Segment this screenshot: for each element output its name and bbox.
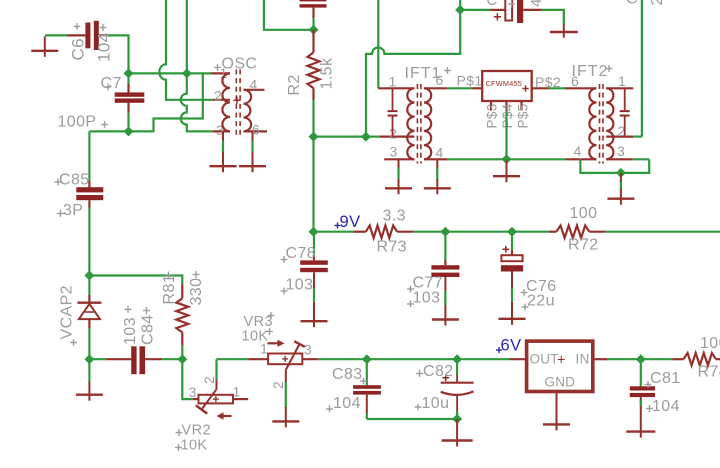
svg-text:R81: R81	[161, 274, 178, 305]
capacitor C82	[415, 359, 474, 419]
winding	[244, 90, 252, 132]
filter U1 box	[482, 71, 532, 101]
wire	[563, 24, 565, 32]
capacitor C71	[300, 0, 327, 30]
ground	[493, 175, 520, 177]
svg-text:6V: 6V	[501, 337, 522, 355]
node	[616, 168, 626, 178]
ground	[607, 197, 634, 199]
wire	[366, 136, 380, 138]
wire	[89, 276, 182, 285]
ground	[543, 423, 570, 425]
wire	[436, 159, 438, 188]
ground	[301, 320, 328, 322]
node	[182, 68, 192, 78]
wire	[460, 9, 490, 11]
capacitor internal	[620, 88, 630, 136]
svg-text:3: 3	[304, 342, 312, 358]
svg-text:6: 6	[436, 72, 444, 88]
capacitor internal	[388, 88, 398, 136]
filter U1 P$5	[516, 101, 531, 129]
filter U1 P$4	[500, 101, 515, 129]
pin 3	[384, 144, 414, 160]
wire	[314, 136, 366, 138]
svg-text:104: 104	[333, 395, 361, 412]
svg-text:IN: IN	[576, 352, 590, 367]
ground	[385, 187, 412, 189]
svg-text:3: 3	[189, 384, 197, 400]
node	[177, 354, 187, 364]
node	[309, 25, 319, 35]
ground	[76, 394, 103, 396]
node	[507, 227, 517, 237]
wire	[129, 72, 212, 74]
svg-text:100: 100	[700, 335, 720, 352]
svg-text:C78: C78	[286, 245, 317, 262]
svg-text:OUT: OUT	[530, 352, 559, 367]
transformer IFT1 label	[405, 65, 451, 82]
pin 2	[213, 88, 230, 104]
wire	[506, 159, 508, 176]
svg-text:R74: R74	[698, 364, 720, 381]
diode VCAP2	[59, 276, 102, 360]
node	[455, 5, 465, 15]
svg-text:2: 2	[270, 381, 286, 389]
pin 2	[606, 123, 633, 139]
node	[124, 126, 134, 136]
svg-text:1.5k: 1.5k	[319, 57, 336, 89]
origin cross	[233, 99, 240, 101]
svg-text:10K: 10K	[242, 329, 269, 345]
svg-text:2: 2	[649, 0, 666, 6]
svg-text:3P: 3P	[63, 202, 83, 219]
capacitor C83	[326, 359, 381, 419]
wire	[127, 113, 129, 132]
wire	[129, 73, 203, 131]
wire	[505, 111, 507, 160]
ground	[442, 439, 473, 441]
capacitor C81	[630, 359, 681, 431]
wire	[222, 131, 224, 166]
svg-text:4: 4	[574, 143, 582, 159]
pin 2	[380, 126, 415, 142]
core	[416, 84, 418, 164]
wire	[251, 131, 253, 166]
capacitor C85	[55, 172, 104, 220]
wire	[456, 419, 458, 441]
winding	[222, 73, 230, 131]
resistor R81	[161, 271, 205, 345]
wire	[448, 158, 566, 160]
ground	[550, 31, 578, 33]
svg-text:104: 104	[95, 32, 114, 62]
wire	[108, 35, 128, 84]
svg-text:C85: C85	[59, 172, 90, 189]
pin 4	[565, 143, 596, 159]
wire	[366, 0, 460, 137]
wire	[606, 231, 720, 233]
wire	[89, 130, 128, 132]
wire	[181, 346, 183, 360]
svg-text:104: 104	[652, 398, 680, 415]
wire	[549, 87, 567, 89]
svg-text:3.3: 3.3	[383, 208, 406, 225]
label partial	[626, 0, 666, 8]
wire	[414, 231, 549, 233]
resistor R72	[549, 205, 606, 254]
capacitor C76	[501, 232, 557, 319]
core	[235, 70, 237, 136]
wire	[633, 158, 650, 160]
winding	[589, 88, 596, 159]
svg-text:1: 1	[233, 384, 241, 400]
svg-text:2: 2	[201, 376, 217, 384]
winding	[407, 88, 414, 159]
svg-text:C82: C82	[423, 363, 454, 380]
wire	[367, 418, 457, 420]
capacitor C84	[89, 306, 182, 395]
ground	[210, 165, 237, 167]
wire	[216, 359, 218, 389]
node	[502, 154, 512, 164]
pin 1	[606, 73, 633, 89]
svg-text:100P: 100P	[58, 114, 97, 131]
svg-text:9V: 9V	[340, 213, 361, 231]
ground	[272, 420, 299, 422]
svg-text:4: 4	[436, 145, 444, 161]
capacitor C73	[487, 0, 546, 23]
svg-text:330: 330	[188, 278, 205, 306]
svg-text:VR2: VR2	[182, 423, 211, 439]
node	[361, 132, 371, 142]
wire	[88, 208, 90, 276]
svg-text:GND: GND	[545, 375, 576, 390]
svg-text:3: 3	[390, 144, 398, 160]
node	[452, 414, 462, 424]
svg-text:C: C	[626, 0, 638, 8]
capacitor C77	[407, 232, 459, 320]
wire	[312, 137, 314, 232]
wire	[264, 0, 314, 30]
resistor R74	[672, 335, 720, 381]
winding	[606, 88, 613, 159]
wire	[620, 173, 622, 199]
svg-text:P$5: P$5	[516, 103, 531, 128]
ground	[31, 37, 58, 57]
resistor R2	[286, 30, 336, 100]
core	[599, 84, 601, 164]
svg-text:3: 3	[617, 143, 625, 159]
wire	[580, 159, 649, 173]
filter U1 P$3	[485, 101, 500, 129]
wire	[318, 358, 509, 360]
wire	[88, 131, 90, 181]
trimmer VR2	[175, 376, 248, 454]
resistor R73	[353, 208, 414, 256]
trimmer VR3	[242, 312, 319, 389]
svg-text:CFWM455: CFWM455	[486, 79, 523, 88]
transformer OSC label	[214, 56, 257, 73]
node	[124, 68, 134, 78]
svg-text:1: 1	[618, 73, 626, 89]
node	[452, 354, 462, 364]
svg-text:2: 2	[214, 88, 222, 104]
pin 3	[606, 143, 633, 159]
pin 4	[424, 145, 448, 161]
wire	[397, 159, 399, 188]
capacitor C78	[281, 232, 328, 322]
svg-text:R73: R73	[377, 239, 408, 256]
wire	[285, 370, 287, 422]
svg-text:C81: C81	[650, 370, 681, 387]
regulator U2	[509, 341, 607, 391]
wire	[541, 10, 564, 24]
pin 6	[424, 72, 448, 88]
wire	[377, 0, 379, 88]
node	[84, 271, 94, 281]
svg-text:C6: C6	[69, 38, 88, 61]
svg-text:103: 103	[122, 317, 139, 345]
wire	[633, 0, 642, 137]
wire	[448, 87, 472, 89]
node	[84, 354, 94, 364]
svg-text:+: +	[557, 353, 565, 369]
svg-text:4: 4	[250, 77, 258, 93]
svg-text:C: C	[487, 0, 498, 9]
svg-text:C83: C83	[332, 366, 363, 383]
pin 4	[244, 77, 265, 93]
wire	[181, 0, 213, 131]
ground	[239, 165, 266, 167]
winding	[424, 88, 431, 159]
svg-text:C84: C84	[140, 314, 157, 345]
pin 3	[213, 122, 230, 138]
transformer IFT2 label	[572, 63, 613, 80]
pin 6	[565, 73, 596, 89]
svg-text:103: 103	[286, 277, 314, 294]
ground	[626, 430, 655, 432]
wire	[159, 0, 212, 100]
wire	[312, 100, 314, 136]
svg-text:22u: 22u	[527, 293, 555, 310]
svg-text:100: 100	[570, 205, 598, 222]
wire	[45, 34, 67, 36]
label 9V	[335, 213, 361, 231]
wire	[182, 359, 192, 399]
filter U1 P$1	[457, 73, 483, 89]
pin 1	[378, 74, 414, 90]
svg-text:P$1: P$1	[457, 73, 483, 89]
pin 1	[211, 65, 230, 81]
node	[362, 354, 372, 364]
svg-text:1: 1	[389, 74, 397, 90]
svg-text:R2: R2	[286, 74, 303, 95]
filter U1 P$2	[532, 74, 561, 90]
wire	[217, 358, 249, 360]
node	[636, 354, 646, 364]
capacitor C6	[67, 21, 114, 62]
wire	[556, 392, 558, 425]
svg-text:6: 6	[571, 73, 579, 89]
svg-text:103: 103	[413, 290, 441, 307]
svg-text:10K: 10K	[181, 438, 208, 454]
svg-text:VCAP2: VCAP2	[59, 285, 76, 339]
ground	[499, 318, 526, 320]
pin 6	[244, 122, 268, 138]
svg-text:C7: C7	[101, 75, 122, 92]
svg-text:R72: R72	[568, 237, 599, 254]
svg-text:4: 4	[528, 0, 545, 7]
svg-text:10u: 10u	[422, 395, 450, 412]
ground	[432, 318, 459, 320]
node	[309, 132, 319, 142]
label 6V	[496, 337, 521, 355]
node	[309, 227, 319, 237]
svg-text:P$3: P$3	[485, 103, 500, 128]
wire	[314, 231, 354, 233]
wire	[607, 358, 672, 360]
node	[440, 227, 450, 237]
capacitor C7	[58, 75, 145, 131]
ground	[424, 187, 451, 189]
